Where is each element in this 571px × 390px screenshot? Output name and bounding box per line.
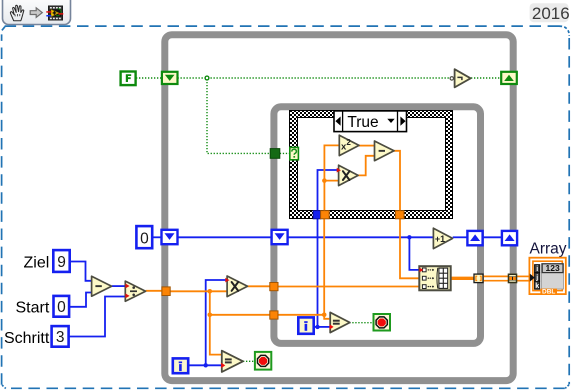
- boolean wire junction: [205, 76, 209, 80]
- shift register blue inner-right (up arrow): [467, 231, 482, 245]
- i terminal (inner): [298, 317, 313, 333]
- svg-text:DBL: DBL: [542, 289, 555, 296]
- wire i (outer) up to multiply: [206, 280, 228, 365]
- toolbar frame: [3, 0, 71, 25]
- wire to build array top input: [409, 237, 419, 270]
- i terminal (outer): [173, 358, 188, 373]
- tunnel: orange on case bottom (right): [395, 211, 404, 219]
- wire tunnel to multiply (outer): [170, 290, 228, 292]
- wire equal to stop (outer): [243, 360, 255, 362]
- wire i (inner) to equal: [314, 326, 330, 328]
- increment +1 node: [433, 228, 452, 248]
- wire x2 to subtract (case): [359, 145, 375, 147]
- case structure border: [290, 111, 453, 219]
- svg-text:3: 3: [56, 329, 65, 346]
- run (arrow) tool icon: [30, 8, 42, 18]
- while loop (inner): [274, 107, 481, 344]
- shift register blue inner-left (down arrow): [272, 230, 288, 244]
- wire Start to subtract: [69, 293, 92, 307]
- while loop (outer): [165, 35, 513, 381]
- wire multiply out to inner tunnel1: [248, 285, 271, 287]
- divide node: [125, 281, 145, 301]
- svg-text:9: 9: [57, 254, 66, 271]
- tunnel: boolean on inner border: [270, 149, 280, 159]
- tunnel: array on outer border: [508, 274, 517, 283]
- wire F to left shift register: [136, 77, 162, 79]
- shift register blue outer-right (up arrow): [502, 231, 517, 245]
- orange junction dots: [208, 289, 213, 294]
- junction at inner i wire: [315, 325, 319, 329]
- tunnel: divide output on outer border: [162, 287, 170, 296]
- svg-text:2: 2: [346, 138, 351, 147]
- wire vertical branch down: [210, 291, 222, 354]
- 2016 version badge: [530, 3, 570, 23]
- tunnel: blue on case bottom: [313, 211, 320, 219]
- svg-text:+1: +1: [435, 234, 445, 244]
- tunnel: orange on case bottom (left): [321, 211, 330, 219]
- wire junction (shift register wire): [407, 235, 411, 239]
- shift register green right (up arrow): [501, 72, 517, 84]
- shift register green left (down arrow): [162, 72, 178, 84]
- tunnel: orange on inner border (lower): [270, 311, 278, 319]
- case selector label "True": [334, 111, 407, 132]
- wire multiply to subtract (case): [358, 156, 375, 176]
- build array node: [419, 266, 450, 290]
- svg-text:Ziel: Ziel: [24, 255, 50, 272]
- stop button (outer): [255, 352, 271, 370]
- x squared node (case): [339, 135, 359, 155]
- NOT gate: [450, 69, 471, 87]
- wire branch to inner tunnel2: [210, 314, 271, 316]
- wire 0 constant to shift registers row: [152, 236, 162, 238]
- wire subtract to divide: [112, 285, 126, 287]
- integer wires (blue): [69, 170, 502, 365]
- svg-text:123: 123: [546, 263, 560, 273]
- equal node (inner): [330, 312, 350, 332]
- subtract node (outer): [92, 276, 112, 296]
- svg-text:k: k: [535, 283, 539, 290]
- wire Schritt to divide: [69, 297, 126, 337]
- Array indicator: [529, 241, 566, 296]
- wire case tunnel up to multiply (case): [318, 170, 339, 211]
- hand tool icon: [10, 5, 23, 20]
- wire case tunnel down to build array middle: [400, 219, 420, 279]
- wire i (outer) to equal: [188, 364, 222, 366]
- svg-text:2016: 2016: [532, 4, 570, 23]
- wire case tunnel down to equal (inner): [317, 219, 319, 327]
- wire Ziel to subtract: [70, 262, 92, 281]
- wire junction vertical to case selector: [207, 79, 270, 153]
- svg-text:j: j: [535, 275, 538, 282]
- wire case tunnel up to x2 and multiply: [324, 181, 338, 211]
- boolean wires (green dotted): [136, 78, 502, 361]
- tunnel: multiply out on inner border: [270, 283, 278, 291]
- multiply node (case): [337, 165, 358, 185]
- build array output wire (thick): [451, 277, 475, 280]
- wire divide to tunnel: [146, 290, 163, 292]
- tunnel: indexing [] on inner border: [474, 274, 483, 283]
- case selector terminal ?: [290, 147, 299, 159]
- constant F: [121, 72, 136, 86]
- shift register blue outer-left (down arrow): [162, 230, 178, 244]
- subtract node (case): [375, 141, 395, 161]
- stop button (inner): [374, 314, 391, 331]
- svg-text:Array: Array: [530, 241, 567, 258]
- svg-text:True: True: [347, 114, 378, 131]
- wire tunnel to ? terminal: [280, 152, 290, 154]
- wire equal to stop (inner): [349, 322, 373, 324]
- VI snippet icon: [46, 6, 63, 20]
- wire tunnel2 to equal (inner): [278, 314, 324, 316]
- constant 0 (shift register init): [136, 226, 152, 248]
- wire subtract (case) down to tunnel: [394, 151, 400, 211]
- svg-text:0: 0: [140, 231, 149, 248]
- float wires (orange): [146, 145, 420, 354]
- svg-text:0: 0: [57, 299, 66, 316]
- svg-text:i: i: [536, 266, 538, 273]
- wire shift register to NOT gate: [178, 77, 452, 79]
- array wire (double line): [483, 276, 530, 280]
- equal node (outer): [221, 351, 243, 372]
- wire tunnel1 to build array bottom: [278, 286, 420, 288]
- multiply node (outer): [225, 276, 247, 297]
- svg-text:Start: Start: [16, 300, 50, 317]
- svg-text:Schritt: Schritt: [4, 330, 50, 347]
- junction at outer i wire: [204, 363, 208, 367]
- wire NOT to right shift register: [471, 77, 502, 79]
